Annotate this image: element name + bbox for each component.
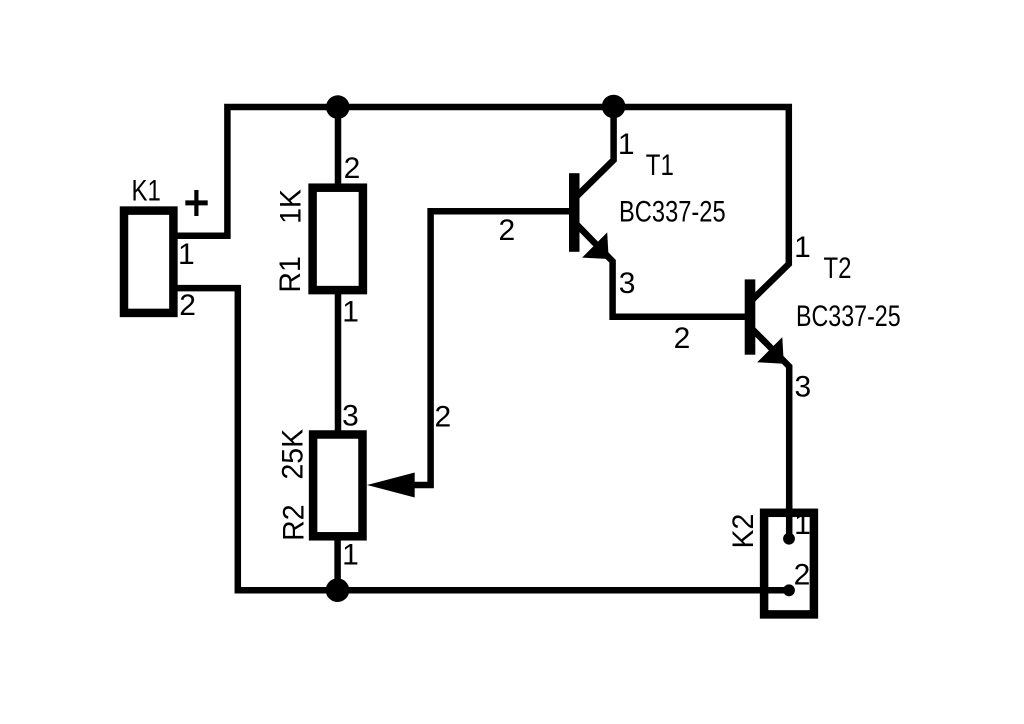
- svg-text:3: 3: [619, 267, 636, 300]
- svg-text:1: 1: [794, 231, 811, 264]
- svg-text:3: 3: [794, 370, 811, 403]
- svg-text:K2: K2: [727, 514, 760, 549]
- svg-text:3: 3: [342, 400, 359, 433]
- svg-text:1: 1: [618, 128, 635, 161]
- svg-text:2: 2: [435, 401, 452, 434]
- svg-text:2: 2: [794, 558, 811, 591]
- svg-text:1: 1: [794, 508, 811, 541]
- svg-text:2: 2: [499, 214, 516, 247]
- svg-text:1: 1: [342, 295, 359, 328]
- svg-text:2: 2: [179, 289, 196, 322]
- svg-text:25K: 25K: [277, 428, 310, 479]
- svg-text:T1: T1: [646, 147, 674, 181]
- svg-text:R2: R2: [278, 504, 311, 540]
- svg-text:BC337-25: BC337-25: [796, 299, 901, 333]
- svg-text:2: 2: [344, 152, 361, 185]
- svg-text:1K: 1K: [275, 189, 308, 224]
- svg-text:T2: T2: [823, 250, 851, 284]
- svg-text:R1: R1: [274, 256, 307, 292]
- svg-text:1: 1: [342, 538, 359, 571]
- svg-text:1: 1: [178, 238, 195, 271]
- svg-text:K1: K1: [132, 173, 161, 207]
- svg-text:2: 2: [674, 322, 691, 355]
- svg-text:BC337-25: BC337-25: [619, 195, 726, 228]
